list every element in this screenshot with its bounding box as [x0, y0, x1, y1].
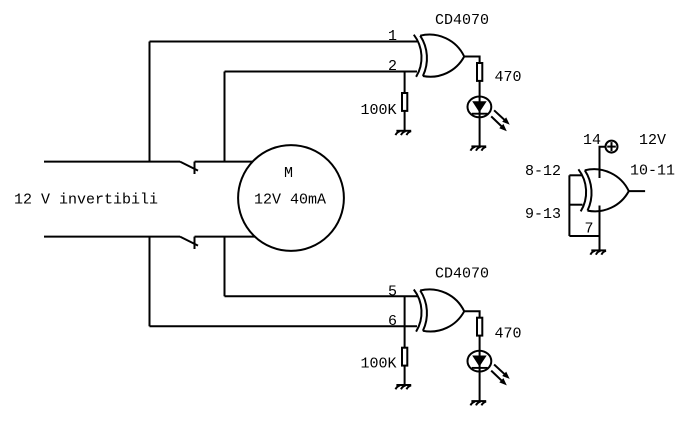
svg-text:470: 470: [495, 69, 522, 86]
svg-text:6: 6: [388, 313, 397, 330]
svg-text:12 V invertibili: 12 V invertibili: [14, 192, 158, 209]
resistor R1 100K (top): [402, 93, 407, 111]
ground (top 100K): [396, 131, 412, 135]
motor M1 circle: [238, 145, 344, 251]
svg-text:12V 40mA: 12V 40mA: [254, 192, 326, 209]
svg-text:M: M: [284, 165, 293, 182]
LED D2 (bottom): [468, 351, 510, 386]
LED D1 (top): [468, 97, 510, 132]
wire vertical to pin5: [224, 237, 226, 297]
gate U1C XOR (spare gate): [578, 169, 628, 211]
wire pin 14: [600, 147, 606, 178]
wire pin 7 to ground: [599, 206, 601, 251]
wire vertical to pin6: [149, 237, 151, 327]
svg-text:2: 2: [388, 58, 397, 75]
svg-text:14: 14: [583, 132, 601, 149]
svg-text:100K: 100K: [361, 355, 397, 372]
wire pin 2: [225, 71, 418, 73]
svg-text:5: 5: [388, 283, 397, 300]
wire 100K to ground (top): [404, 111, 406, 131]
ground (top LED): [471, 146, 487, 150]
power symbol plus circle: [606, 141, 618, 153]
wire gate C bottom horizontal: [569, 235, 599, 237]
ground (bottom 100K): [396, 385, 412, 389]
svg-text:8-12: 8-12: [525, 163, 561, 180]
ground (gate C): [590, 250, 606, 254]
wire top-left horizontal: [44, 161, 180, 163]
wire gate C input stub 9-13: [569, 204, 582, 206]
resistor R4 470 (bottom): [477, 318, 482, 336]
svg-text:12V: 12V: [639, 132, 666, 149]
wire vertical to pin2: [224, 72, 226, 162]
svg-text:7: 7: [585, 220, 594, 237]
wire bottom-left horizontal: [44, 236, 180, 238]
wire break tick (top): [194, 162, 196, 174]
wire gate A output: [464, 57, 479, 64]
ground (bottom LED): [471, 401, 487, 405]
wire resistor through LED to ground (top): [479, 81, 481, 146]
svg-text:470: 470: [495, 325, 522, 342]
wire gate C output: [629, 190, 645, 192]
resistor R3 100K (bottom): [402, 348, 407, 366]
wire break tick (bottom): [194, 237, 196, 249]
svg-text:1: 1: [388, 28, 397, 45]
wire pin 1: [150, 41, 418, 43]
svg-text:9-13: 9-13: [525, 206, 561, 223]
wire break diagonal (bottom): [180, 237, 198, 246]
gate U1A XOR (CD4070 top): [414, 35, 464, 77]
wire top horizontal to motor: [195, 161, 257, 163]
wire resistor through LED to ground (bottom): [479, 336, 481, 402]
wire gate B output: [464, 311, 479, 317]
svg-text:10-11: 10-11: [630, 163, 675, 180]
gate U1B XOR (CD4070 bottom): [414, 289, 464, 331]
wire pin 6: [150, 325, 418, 327]
wire bottom horizontal to motor: [195, 236, 259, 238]
wire break diagonal (top): [180, 162, 198, 171]
svg-text:CD4070: CD4070: [435, 12, 489, 29]
wire pin2 to 100K (top): [404, 72, 406, 94]
wire 100K to ground (bottom): [404, 366, 406, 385]
wire gate C input stub 8-12: [569, 174, 582, 176]
wire gate C inputs left vertical: [568, 175, 570, 236]
wire vertical to pin1: [149, 42, 151, 162]
resistor R2 470 (top): [477, 63, 482, 81]
wire pin 5: [225, 295, 418, 297]
wire pin5 to 100K (bottom): [404, 296, 406, 347]
svg-text:100K: 100K: [361, 102, 397, 119]
svg-text:CD4070: CD4070: [435, 265, 489, 282]
